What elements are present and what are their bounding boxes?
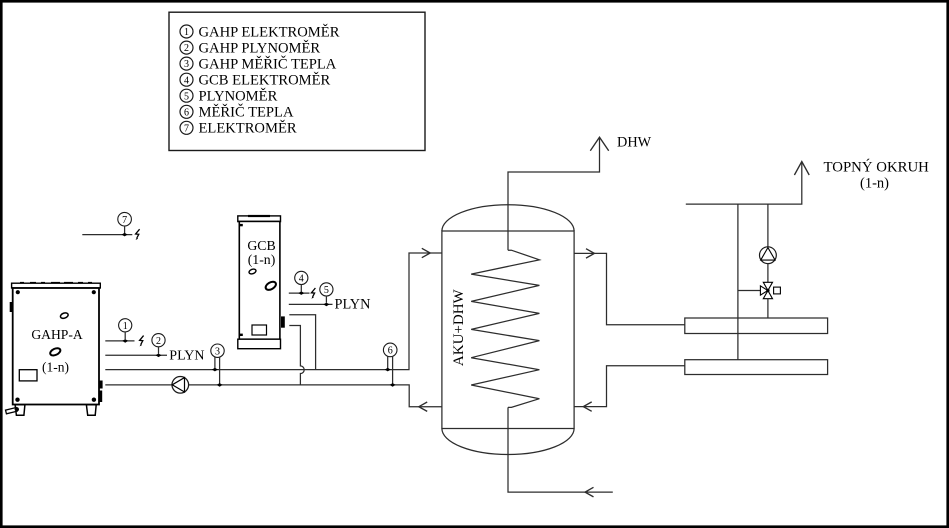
label TOPNY OKRUH <box>824 159 930 192</box>
svg-text:(1-n): (1-n) <box>860 176 889 192</box>
manifold M1 supply <box>685 318 828 334</box>
svg-text:1: 1 <box>184 27 189 38</box>
legend item 3: GAHP MERIC TEPLA <box>180 55 337 72</box>
svg-text:2: 2 <box>184 43 189 54</box>
pipe return tank to GAHP <box>105 385 442 412</box>
GCB unit <box>238 215 285 349</box>
valve 3-way mixing <box>760 282 780 298</box>
svg-text:2: 2 <box>156 336 161 347</box>
legend item 5: PLYNOMER <box>180 88 278 105</box>
pump P2 <box>760 247 777 264</box>
legend item 4: GCB ELEKTROMER <box>180 72 331 89</box>
pipe tank to heating supply <box>574 249 685 325</box>
svg-text:6: 6 <box>388 346 393 357</box>
svg-text:GCB ELEKTROMĚR: GCB ELEKTROMĚR <box>199 72 331 89</box>
svg-text:4: 4 <box>184 75 189 86</box>
svg-text:GAHP ELEKTROMĚR: GAHP ELEKTROMĚR <box>199 23 340 40</box>
meter 4 (GCB elektromer) <box>295 271 308 295</box>
svg-text:7: 7 <box>122 215 127 226</box>
coil heat exchanger <box>471 250 539 407</box>
pipe pump to valve <box>767 264 769 283</box>
label PLYN (GAHP) <box>169 349 204 364</box>
lightning bolt 3 <box>136 229 140 240</box>
svg-text:GCB: GCB <box>247 238 275 253</box>
pump P1 <box>172 377 189 394</box>
wire elec GCB <box>289 292 310 294</box>
pipe DHW out <box>508 137 609 250</box>
pipe valve to manifold M1 <box>767 299 769 318</box>
label DHW <box>617 135 652 151</box>
svg-text:3: 3 <box>184 59 189 70</box>
meter 7 (elektromer) <box>118 212 132 236</box>
legend item 6: MERIC TEPLA <box>180 104 294 121</box>
pipe bypass riser1 to valve <box>738 290 761 292</box>
svg-text:GAHP MĚŘIČ TEPLA: GAHP MĚŘIČ TEPLA <box>199 55 337 72</box>
svg-text:DHW: DHW <box>617 135 652 151</box>
pipe GCB supply <box>289 315 315 370</box>
wire elec GAHP <box>105 340 134 342</box>
legend item 2: GAHP PLYNOMER <box>180 39 320 56</box>
legend item 1: GAHP ELEKTROMER <box>180 23 340 40</box>
svg-text:(1-n): (1-n) <box>42 360 69 375</box>
svg-text:MĚŘIČ TEPLA: MĚŘIČ TEPLA <box>199 104 294 121</box>
svg-text:AKU+DHW: AKU+DHW <box>451 288 467 366</box>
tank AKU+DHW <box>442 205 574 455</box>
svg-text:3: 3 <box>215 346 220 357</box>
pipe heating return riser <box>737 204 739 360</box>
svg-text:1: 1 <box>123 321 128 332</box>
wire elec system <box>82 234 132 236</box>
wire gas GCB <box>289 303 333 305</box>
pipe supply GAHP to tank <box>105 248 442 369</box>
svg-text:PLYN: PLYN <box>335 296 371 312</box>
manifold M2 return <box>685 360 828 375</box>
svg-text:5: 5 <box>324 285 329 296</box>
meter 6 (meric tepla) <box>383 343 397 387</box>
wire gas GAHP <box>105 354 167 356</box>
pipe heating return to tank <box>574 366 685 412</box>
label PLYN (GCB) <box>335 296 371 312</box>
pipe cold water in <box>508 407 613 497</box>
GAHP-A unit <box>6 282 103 415</box>
heating circuit top line with arrow <box>686 162 809 205</box>
svg-text:7: 7 <box>184 123 189 134</box>
legend box <box>169 12 425 150</box>
svg-text:PLYNOMĚR: PLYNOMĚR <box>199 88 278 105</box>
svg-text:5: 5 <box>184 91 189 102</box>
pipe heating supply riser (upper) <box>767 204 769 247</box>
pipe GCB return with hop over supply pipe <box>289 326 304 385</box>
svg-text:TOPNÝ OKRUH: TOPNÝ OKRUH <box>824 159 930 176</box>
lightning bolt 1 <box>140 336 144 347</box>
svg-text:6: 6 <box>184 107 189 118</box>
meter 5 (plynomer) <box>320 283 333 306</box>
meter 1 (GAHP elektromer) <box>119 319 132 343</box>
svg-text:PLYN: PLYN <box>169 349 204 364</box>
legend item 7: ELEKTROMER <box>180 120 297 137</box>
meter 2 (GAHP plynomer) <box>152 334 165 358</box>
svg-text:GAHP PLYNOMĚR: GAHP PLYNOMĚR <box>199 39 321 56</box>
svg-text:GAHP-A: GAHP-A <box>31 327 83 342</box>
svg-text:ELEKTROMĚR: ELEKTROMĚR <box>199 120 297 137</box>
meter 3 (GAHP meric tepla) <box>211 344 224 387</box>
lightning bolt 2 <box>311 288 315 299</box>
svg-text:(1-n): (1-n) <box>248 252 276 268</box>
svg-text:4: 4 <box>299 274 304 285</box>
